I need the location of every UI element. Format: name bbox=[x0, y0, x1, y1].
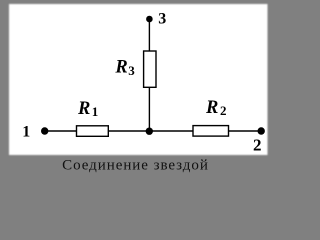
svg-text:2: 2 bbox=[253, 136, 262, 155]
svg-text:R: R bbox=[114, 58, 127, 78]
svg-text:2: 2 bbox=[220, 103, 227, 118]
node 3 bbox=[146, 16, 153, 23]
svg-text:1: 1 bbox=[22, 124, 30, 141]
resistor R2 bbox=[193, 126, 229, 137]
wire: horizontal bus node1 to node2 bbox=[45, 130, 262, 132]
wire: vertical from node 3 to junction bbox=[148, 19, 150, 131]
gray background bbox=[0, 0, 276, 180]
svg-text:3: 3 bbox=[158, 11, 166, 28]
junction node bbox=[146, 128, 153, 135]
node 2 bbox=[258, 127, 265, 134]
resistor R1 bbox=[77, 126, 109, 137]
resistor R3 bbox=[144, 51, 156, 87]
svg-text:3: 3 bbox=[128, 63, 135, 78]
svg-text:R: R bbox=[77, 99, 90, 119]
white schematic panel bbox=[9, 4, 268, 155]
node 1 bbox=[41, 127, 48, 134]
svg-text:1: 1 bbox=[92, 104, 99, 119]
svg-text:R: R bbox=[205, 98, 218, 118]
svg-text:Соединение звездой: Соединение звездой bbox=[62, 158, 209, 174]
